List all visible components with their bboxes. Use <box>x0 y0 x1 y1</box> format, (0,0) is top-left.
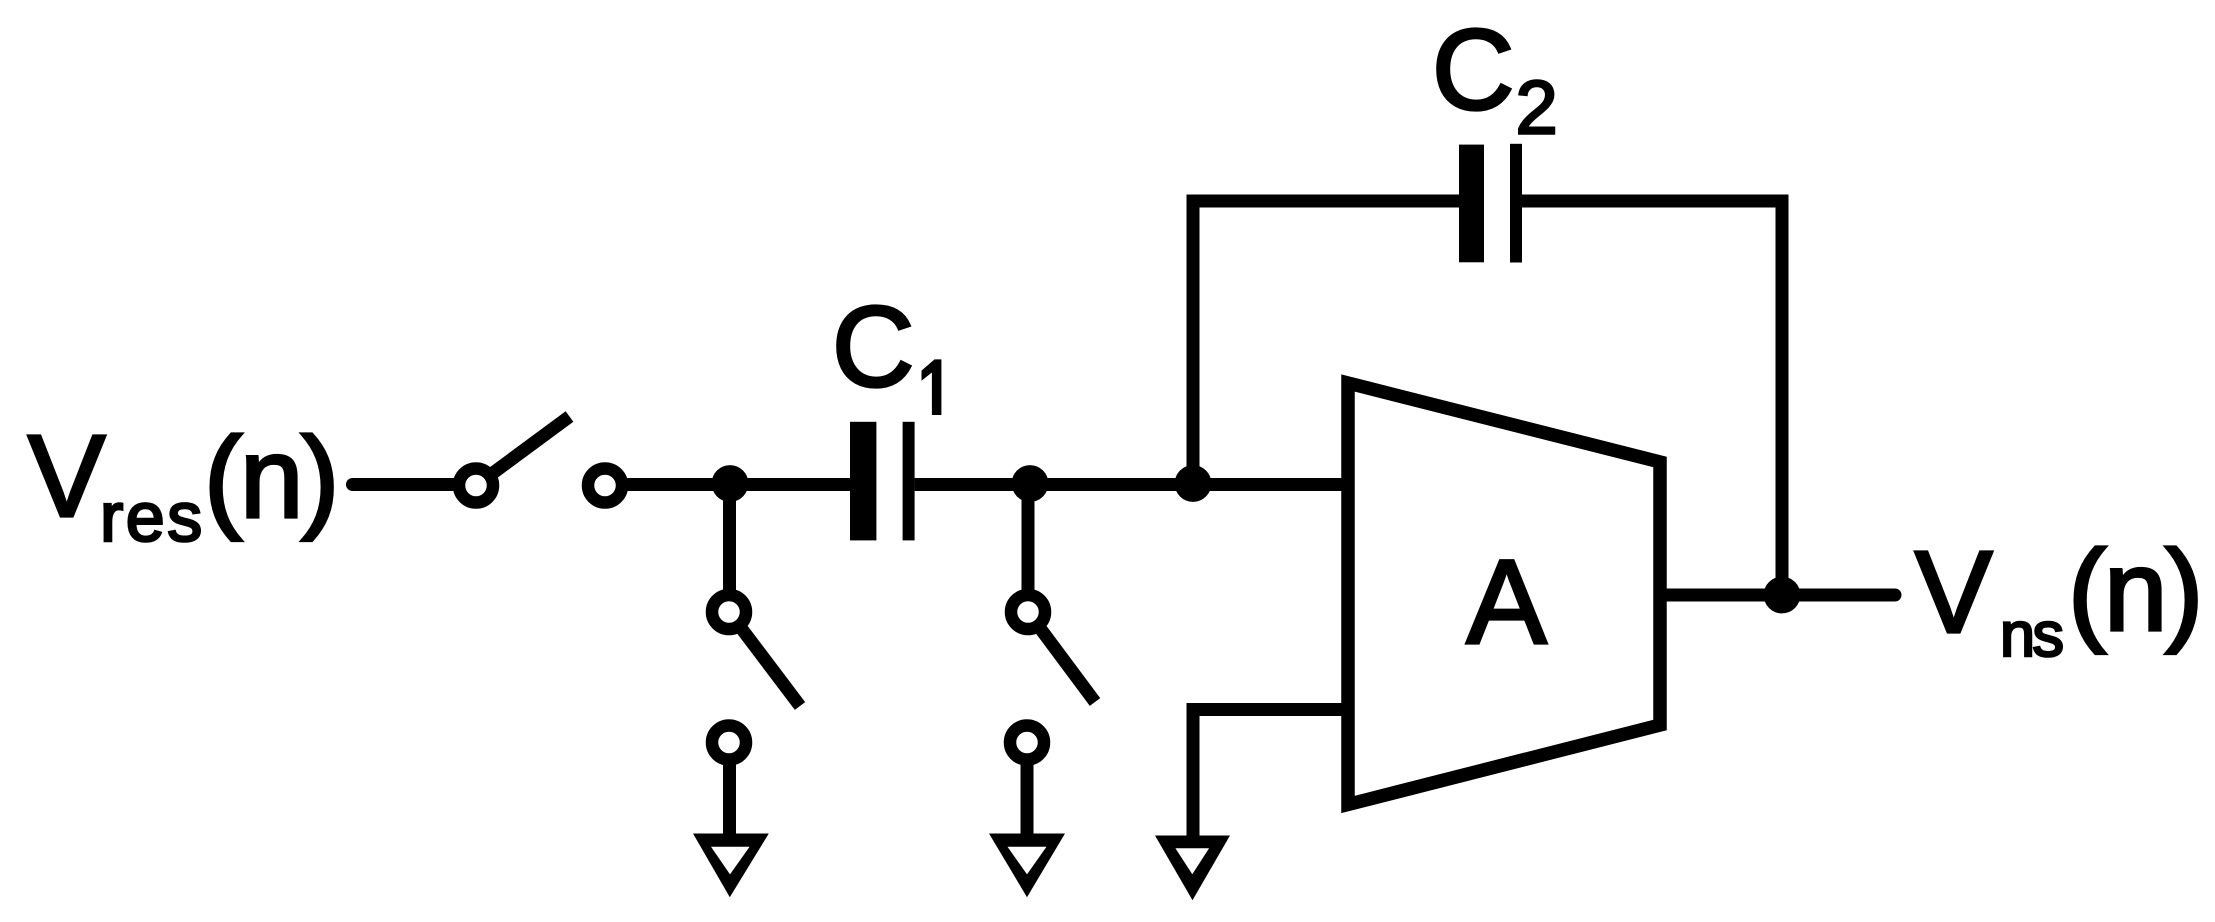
wire feedback right vertical <box>1776 201 1789 595</box>
wire switch to C1 <box>622 478 851 491</box>
wire S3 contact to ground <box>1021 759 1034 846</box>
switch S1 throw contact <box>588 469 622 503</box>
wire output <box>1660 589 1895 602</box>
switch S2 lever <box>729 612 800 706</box>
node junction J2 <box>1012 465 1049 502</box>
svg-text:res: res <box>100 478 205 556</box>
switch S3 pivot contact <box>1011 595 1045 629</box>
wire lower amp input <box>1193 710 1348 847</box>
wire feedback left vertical <box>1187 201 1200 484</box>
wire J1 branch down <box>723 484 736 601</box>
ground 2 <box>989 834 1065 898</box>
switch S1 lever <box>476 417 570 486</box>
capacitor C2 label <box>1432 7 1558 151</box>
svg-text:ns: ns <box>2000 600 2063 670</box>
svg-text:(n): (n) <box>204 415 337 542</box>
node junction J4 output <box>1764 577 1801 614</box>
node label Vns(n) <box>1915 527 2201 670</box>
node junction J1 <box>712 465 749 502</box>
svg-text:V: V <box>28 411 105 541</box>
op-amp A label <box>1467 535 1547 669</box>
svg-text:C: C <box>1432 7 1514 134</box>
ground 1 <box>693 834 769 898</box>
switch S2 throw contact <box>712 726 746 760</box>
switch S3 lever <box>1028 612 1095 702</box>
switch S2 pivot contact <box>712 595 746 629</box>
ground 3 <box>1155 836 1230 901</box>
wire feedback top right <box>1522 195 1789 208</box>
svg-text:C: C <box>832 284 914 411</box>
wire S2 contact to ground <box>723 759 736 846</box>
capacitor C2 plates <box>1459 144 1522 263</box>
svg-text:2: 2 <box>1516 66 1558 151</box>
wire input segment <box>353 478 461 491</box>
op-amp A body <box>1348 383 1660 805</box>
wire feedback top left <box>1187 195 1461 208</box>
svg-text:(n): (n) <box>2068 528 2201 655</box>
capacitor C1 plates <box>850 422 915 541</box>
wire J2 branch down <box>1022 484 1035 601</box>
wire C1 to amplifier <box>915 478 1348 491</box>
switch S1 pivot contact <box>459 469 493 503</box>
switch S3 throw contact <box>1010 726 1044 760</box>
capacitor C1 label <box>832 284 941 415</box>
node junction J3 <box>1175 465 1212 502</box>
svg-text:A: A <box>1467 535 1547 669</box>
svg-text:V: V <box>1915 527 1992 657</box>
node label Vres(n) <box>28 411 337 556</box>
